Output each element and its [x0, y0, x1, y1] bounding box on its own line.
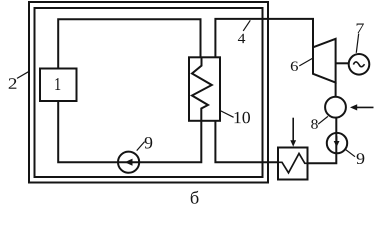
- reactor R1 box: [40, 69, 77, 102]
- pump 9 arrow (points left): [125, 159, 133, 166]
- steam generator 10 box: [189, 57, 220, 121]
- leader line to label 6: [299, 58, 312, 66]
- wire: primary hot leg (reactor top, up, right, down to SG): [58, 19, 200, 68]
- label 9 primary pump: [145, 137, 152, 149]
- leader line to label 8: [318, 116, 328, 124]
- heater zigzag coil: [278, 154, 308, 173]
- label 9 condensate pump: [357, 153, 365, 164]
- wire: steam line 4 (SG top, up, right, down into turbine): [215, 19, 313, 57]
- condensate pump 9 circle: [327, 133, 347, 153]
- mixer/condenser 8 circle: [325, 97, 346, 118]
- leader line to label 7: [356, 34, 358, 53]
- generator 7 circle: [349, 54, 370, 75]
- label 10: [235, 112, 241, 123]
- label 1: [55, 78, 60, 90]
- label 7: [357, 23, 364, 33]
- cooling/heating arrow into heater box: [292, 118, 294, 141]
- wire: turbine to generator shaft: [336, 62, 349, 64]
- leader line to label 2: [17, 72, 28, 79]
- generator 7 sine symbol: [353, 62, 364, 67]
- wire: feedwater return to SG: [215, 121, 278, 162]
- primary circulation pump 9 circle: [118, 152, 139, 173]
- leader line to label 4: [243, 20, 250, 31]
- turbine 6 trapezoid: [313, 39, 336, 83]
- containment vessel 2 outer wall: [29, 2, 268, 183]
- label 6: [291, 62, 298, 71]
- label 2: [9, 78, 17, 88]
- feedwater heater box: [278, 148, 308, 180]
- label 4: [238, 34, 245, 43]
- wire: primary cold leg (SG bottom, down, left, up to reactor bottom): [58, 101, 201, 162]
- cooling water inlet arrow into 8: [357, 106, 374, 108]
- leader line to label 10: [220, 111, 234, 118]
- leader line to label 9 (condensate pump): [345, 149, 355, 157]
- heat exchanger coil inside 10: [192, 57, 212, 121]
- wire: condensate line 8 to 9 to heater: [308, 118, 337, 164]
- leader line to label 9 (primary pump): [137, 142, 145, 151]
- containment vessel 2 inner wall: [35, 8, 263, 177]
- label 8: [311, 119, 318, 128]
- condensate pump 9 arrow (points down): [336, 136, 338, 141]
- label b (scheme variant): [191, 191, 199, 204]
- wire: turbine exhaust down to 8: [335, 83, 337, 97]
